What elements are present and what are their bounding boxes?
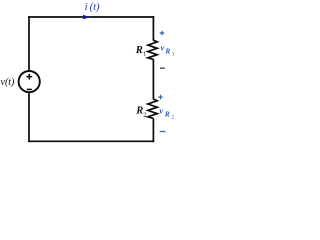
svg-text:R: R — [135, 105, 143, 116]
current arrow — [83, 15, 91, 19]
svg-text:v: v — [161, 42, 165, 52]
svg-text:i: i — [85, 2, 88, 13]
wire top — [28, 16, 154, 18]
polarity plus R1 — [160, 31, 165, 36]
svg-text:R: R — [135, 45, 143, 56]
svg-text:1: 1 — [172, 51, 175, 57]
svg-text:(t): (t) — [90, 2, 100, 13]
polarity plus R2 — [158, 95, 163, 100]
svg-text:R: R — [164, 111, 170, 119]
svg-text:R: R — [164, 48, 170, 56]
svg-text:2: 2 — [171, 114, 174, 120]
svg-text:2: 2 — [143, 112, 146, 119]
wire bottom — [28, 140, 154, 142]
polarity minus R2 — [160, 131, 166, 133]
wire right lower — [152, 119, 154, 143]
wire left lower — [28, 92, 30, 142]
svg-text:v: v — [159, 106, 163, 116]
resistor R1 — [148, 40, 157, 59]
voltage source V — [19, 71, 40, 92]
wire right upper — [152, 16, 154, 40]
polarity minus R1 — [160, 67, 165, 69]
wire right middle — [152, 59, 154, 99]
resistor R2 — [148, 99, 157, 118]
svg-text:v(t): v(t) — [1, 77, 16, 88]
wire left upper — [28, 16, 30, 71]
svg-text:1: 1 — [143, 50, 146, 57]
